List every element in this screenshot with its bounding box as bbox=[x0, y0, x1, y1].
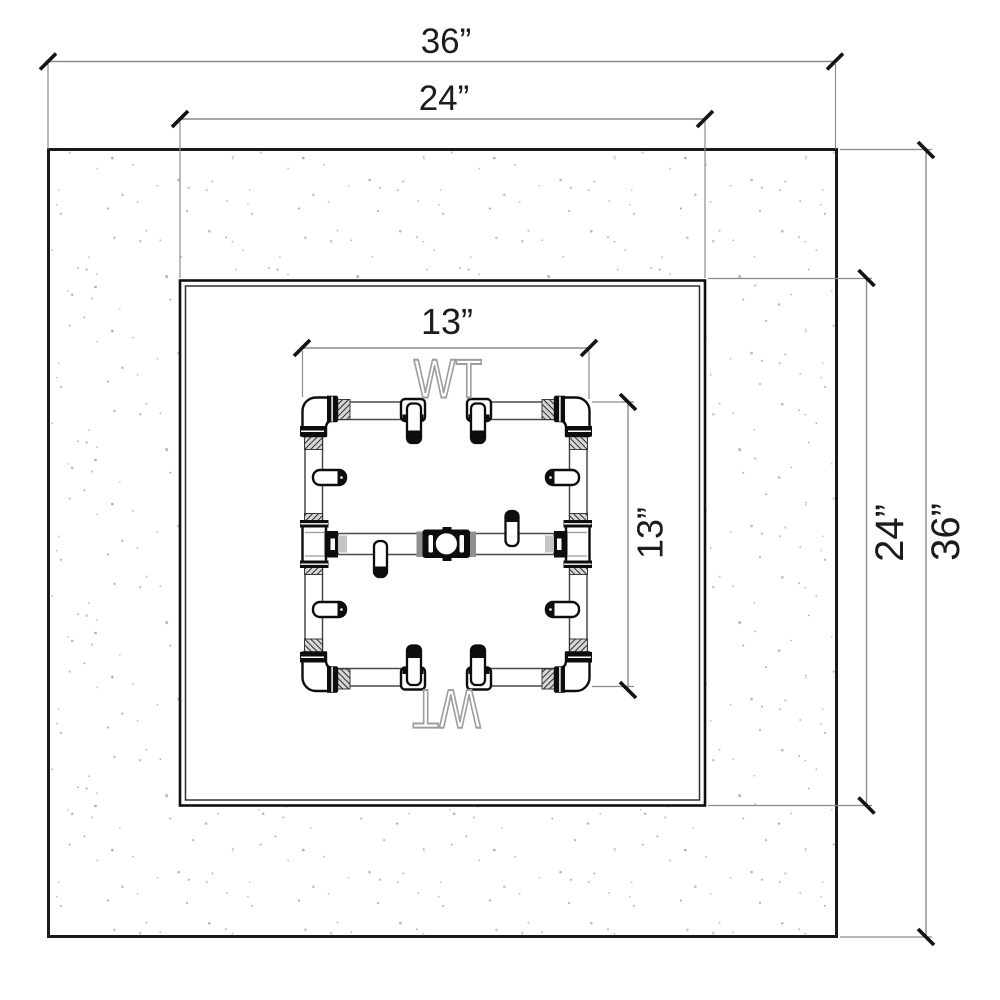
svg-text:WT: WT bbox=[412, 678, 480, 740]
elbow bottom-left bbox=[300, 639, 350, 693]
burner assembly bbox=[300, 396, 592, 693]
tee top inner-left with nipple bbox=[401, 399, 425, 444]
dimension 36in top: line, ticks, extension lines, label bbox=[48, 62, 836, 150]
tee top inner-right with nipple bbox=[467, 399, 491, 444]
nipple left lower (horizontal) bbox=[313, 602, 346, 617]
svg-text:24”: 24” bbox=[868, 504, 912, 562]
pipe center-right bbox=[472, 534, 554, 555]
pipe right vertical bbox=[570, 430, 588, 658]
concrete pad outer square 36in bbox=[49, 150, 837, 937]
dimension 13in right of burner (vertical): line, ticks, extension lines, rotated label bbox=[592, 402, 634, 690]
tee right middle bbox=[545, 514, 592, 575]
pipe bottom-right bbox=[485, 669, 561, 687]
elbow top-right bbox=[542, 396, 592, 450]
svg-text:13”: 13” bbox=[421, 301, 473, 342]
svg-text:13”: 13” bbox=[630, 507, 671, 559]
pad opening inner square 24in bbox=[180, 281, 705, 806]
elbow bottom-right bbox=[542, 639, 592, 693]
nipple center-left downward bbox=[374, 541, 387, 577]
svg-text:24”: 24” bbox=[419, 79, 470, 118]
tee bottom inner-left with nipple bbox=[401, 645, 425, 690]
dimension 13in top (burner width): line, ticks, extension lines, label bbox=[302, 348, 589, 399]
pipe left vertical bbox=[305, 430, 323, 658]
dimension 36in right side (vertical): line, ticks, extension lines, rotated label bbox=[840, 150, 932, 938]
label WT bottom (rotated 180) bbox=[412, 678, 480, 740]
pipe top-right bbox=[485, 402, 561, 420]
nipple left upper (horizontal) bbox=[313, 470, 346, 485]
pipe bottom-left bbox=[331, 669, 407, 687]
svg-text:36”: 36” bbox=[924, 503, 968, 561]
nipple right upper (horizontal) bbox=[546, 470, 579, 485]
svg-text:WT: WT bbox=[414, 348, 482, 410]
pipe center-left bbox=[338, 534, 420, 555]
tee left middle bbox=[300, 514, 347, 575]
dimension 24in top: line, ticks, extension lines, label bbox=[180, 119, 705, 278]
tee bottom inner-right with nipple bbox=[467, 645, 491, 690]
center union fitting with orifice bbox=[417, 527, 477, 561]
nipple center-right upward bbox=[506, 511, 519, 546]
svg-text:36”: 36” bbox=[421, 22, 472, 61]
pipe top-left bbox=[331, 402, 407, 420]
nipple right lower (horizontal) bbox=[546, 602, 579, 617]
elbow top-left bbox=[300, 396, 350, 450]
dimension 24in right side (vertical): line, ticks, extension lines, rotated label bbox=[708, 278, 872, 806]
